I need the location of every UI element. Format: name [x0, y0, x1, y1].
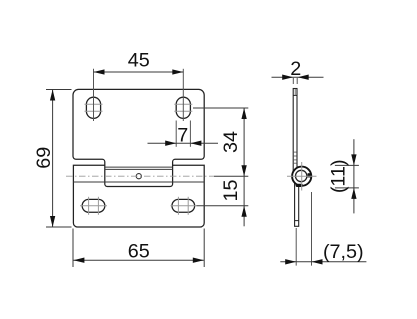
- svg-text:65: 65: [128, 240, 150, 262]
- svg-text:(7,5): (7,5): [323, 241, 364, 263]
- svg-text:15: 15: [220, 179, 242, 201]
- svg-text:69: 69: [33, 147, 55, 169]
- svg-text:7: 7: [177, 124, 188, 146]
- svg-text:(11): (11): [328, 159, 350, 193]
- svg-text:45: 45: [128, 49, 150, 71]
- svg-text:2: 2: [290, 58, 301, 80]
- svg-text:34: 34: [220, 131, 242, 153]
